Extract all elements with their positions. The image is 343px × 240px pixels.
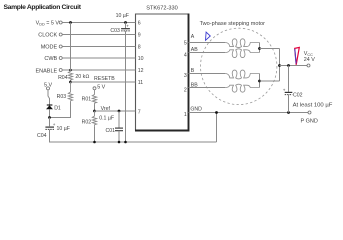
wire RESETB net xyxy=(71,76,136,82)
capacitor C03 xyxy=(110,13,130,142)
svg-text:CLOCK: CLOCK xyxy=(38,33,57,39)
node A tap junction xyxy=(258,47,261,50)
wire 5V column to R04 xyxy=(70,23,72,71)
svg-text:STK672-330: STK672-330 xyxy=(146,6,177,12)
svg-text:+: + xyxy=(53,122,56,127)
wire VDD net xyxy=(62,22,135,24)
resistor R04 xyxy=(58,70,89,82)
ground rail (S GND) xyxy=(49,141,217,143)
motor dashed circle xyxy=(201,28,277,104)
wire pin3 B xyxy=(189,68,226,74)
wire R03 bottom to reset node xyxy=(50,102,71,118)
wire tap1 to VCC rail xyxy=(260,48,280,50)
svg-text:10: 10 xyxy=(138,56,144,62)
wire A/AB center tap xyxy=(259,43,261,53)
wire pin5 A xyxy=(189,34,226,42)
node B tap junction xyxy=(258,80,261,83)
wire VCC rail vertical xyxy=(279,49,281,82)
terminal VDD xyxy=(36,21,63,27)
node VDD-R04 column junction xyxy=(69,21,72,24)
svg-text:R04: R04 xyxy=(58,75,68,81)
resistor R01 xyxy=(82,90,97,105)
svg-text:24 V: 24 V xyxy=(304,57,315,63)
svg-text:+: + xyxy=(283,87,286,92)
svg-text:8: 8 xyxy=(138,45,141,51)
wire R02 to ground rail xyxy=(94,126,96,142)
node VDD-C03 junction xyxy=(124,21,127,24)
svg-text:A: A xyxy=(191,34,195,40)
wire B/BB center tap xyxy=(259,74,261,88)
wire VCC feed xyxy=(280,65,308,67)
svg-text:2: 2 xyxy=(184,88,187,94)
coil BB winding xyxy=(225,84,260,92)
wire pin4 AB xyxy=(189,47,226,53)
IC U1 body xyxy=(135,14,189,131)
svg-text:MODE: MODE xyxy=(41,45,58,51)
node GND-rail junction xyxy=(215,111,218,114)
node rail-C01 junction xyxy=(118,141,121,144)
node ENABLE-R04 junction xyxy=(69,69,72,72)
blue phase arrow xyxy=(206,32,211,40)
VCC magenta arrow xyxy=(295,47,300,64)
node rail-VCC wire junction xyxy=(278,64,281,67)
svg-text:VDD = 5 V: VDD = 5 V xyxy=(36,21,60,27)
svg-text:R03: R03 xyxy=(57,94,67,100)
node GND-C02 junction xyxy=(287,111,290,114)
svg-text:RESETB: RESETB xyxy=(94,76,115,82)
wire GND net (pin 1) xyxy=(189,107,309,113)
terminal 5V (Vref divider) xyxy=(93,85,106,91)
resistor R02 xyxy=(82,111,97,126)
wire MODE net xyxy=(62,46,135,48)
svg-text:11: 11 xyxy=(138,80,143,86)
svg-text:C04: C04 xyxy=(37,133,47,139)
coil A winding xyxy=(225,39,260,48)
svg-text:B: B xyxy=(191,68,195,74)
node reset RC junction xyxy=(48,116,51,119)
node R04-RESETB junction xyxy=(69,81,72,84)
svg-text:Two-phase stepping motor: Two-phase stepping motor xyxy=(200,21,266,27)
svg-text:C03: C03 xyxy=(110,28,120,34)
terminal VCC 24V xyxy=(304,51,315,67)
svg-text:4: 4 xyxy=(184,52,187,58)
terminal CWB xyxy=(44,56,62,62)
svg-text:5 V: 5 V xyxy=(97,85,105,91)
terminal CLOCK xyxy=(38,33,62,39)
node rail-R02 junction xyxy=(93,141,96,144)
wire tap2 to VCC rail xyxy=(260,80,280,82)
svg-text:R01: R01 xyxy=(82,96,92,102)
wire Vref net xyxy=(95,106,136,112)
coil B winding xyxy=(225,70,260,79)
coil AB winding xyxy=(225,49,260,58)
svg-text:1: 1 xyxy=(184,112,187,118)
wire node to C04 xyxy=(49,118,51,127)
capacitor C04 xyxy=(37,122,70,139)
terminal 5V (reset circuit) xyxy=(44,82,52,90)
svg-text:6: 6 xyxy=(138,21,141,27)
terminal MODE xyxy=(41,45,62,51)
svg-text:12: 12 xyxy=(138,68,144,74)
resistor R03 xyxy=(57,82,73,102)
terminal P GND xyxy=(301,111,318,125)
svg-text:10 µF: 10 µF xyxy=(116,13,129,19)
wire 5V to D1 xyxy=(48,90,50,105)
node rail-C03 junction xyxy=(124,141,127,144)
svg-text:9: 9 xyxy=(138,33,141,39)
svg-text:20 kΩ: 20 kΩ xyxy=(75,74,89,80)
capacitor C01 xyxy=(99,111,123,142)
svg-text:0.1 µF: 0.1 µF xyxy=(99,116,114,122)
wire CWB net xyxy=(62,57,135,59)
wire pin2 BB xyxy=(189,83,226,89)
wire C04 to ground rail xyxy=(49,129,51,142)
svg-text:At least 100 µF: At least 100 µF xyxy=(293,103,333,109)
svg-text:5: 5 xyxy=(184,40,187,46)
wire ENABLE net xyxy=(62,69,135,71)
svg-text:C02: C02 xyxy=(293,92,303,98)
wire D1 to node xyxy=(49,109,51,117)
svg-text:C01: C01 xyxy=(106,128,116,134)
node Vref divider junction xyxy=(93,110,96,113)
svg-text:10 µF: 10 µF xyxy=(57,126,70,132)
svg-text:P GND: P GND xyxy=(301,119,318,125)
svg-text:GND: GND xyxy=(190,107,202,113)
svg-text:7: 7 xyxy=(138,110,141,116)
svg-text:ENABLE: ENABLE xyxy=(35,68,57,74)
wire CLOCK net xyxy=(62,34,135,36)
svg-text:D1: D1 xyxy=(54,106,61,112)
svg-text:R02: R02 xyxy=(82,119,92,125)
svg-text:CWB: CWB xyxy=(44,56,57,62)
node VCC-C02 junction xyxy=(287,64,290,67)
capacitor C02 xyxy=(283,66,303,113)
wire R01 to Vref node xyxy=(94,105,96,112)
node Vref-C01 junction xyxy=(118,110,121,113)
svg-text:Sample Application Circuit: Sample Application Circuit xyxy=(4,4,82,11)
svg-text:+: + xyxy=(126,24,129,29)
wire rail to GND pin line xyxy=(216,113,218,143)
svg-text:3: 3 xyxy=(184,73,187,79)
diode D1 xyxy=(46,105,61,112)
terminal ENABLE xyxy=(35,68,62,74)
